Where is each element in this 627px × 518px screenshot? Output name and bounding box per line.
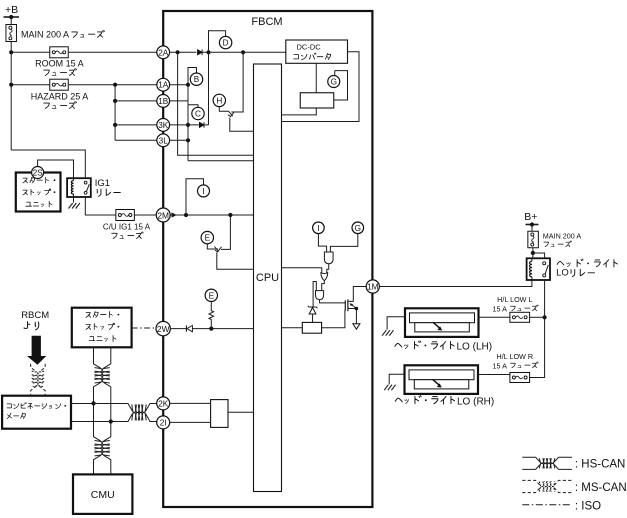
svg-text:: HS-CAN: : HS-CAN [575,458,625,470]
svg-text:ROOM 15 A: ROOM 15 A [35,59,84,69]
svg-text:I: I [202,187,204,196]
svg-text:E: E [205,234,211,243]
svg-text:LO: LO [556,267,569,278]
svg-text:G: G [355,224,361,233]
svg-text:MAIN 200 A: MAIN 200 A [21,30,69,40]
svg-text:1B: 1B [158,97,169,106]
svg-text:CMU: CMU [91,489,115,501]
svg-text:D: D [223,39,229,48]
svg-text:LO (LH): LO (LH) [457,342,493,353]
svg-text:2I: 2I [160,418,167,427]
svg-text:2K: 2K [158,399,169,408]
svg-text:MAIN 200 A: MAIN 200 A [543,231,582,240]
svg-text:15 A: 15 A [493,305,508,314]
svg-text:IG1: IG1 [95,178,110,189]
svg-text:RBCM: RBCM [21,310,49,321]
svg-text:2M: 2M [157,211,169,221]
svg-text:LO (RH): LO (RH) [457,397,494,408]
svg-text:1M: 1M [367,283,379,292]
svg-text:CPU: CPU [256,272,279,284]
svg-text:E: E [209,291,215,300]
svg-text:C: C [195,110,201,119]
svg-text:2W: 2W [157,324,170,334]
svg-text:1A: 1A [158,81,169,90]
svg-text:C/U IG1 15 A: C/U IG1 15 A [103,223,151,232]
svg-text:15 A: 15 A [493,362,508,371]
svg-text:H/L LOW R: H/L LOW R [497,352,533,361]
svg-text:H: H [216,96,222,105]
svg-text:DC-DC: DC-DC [297,42,322,51]
svg-text:3L: 3L [159,136,169,145]
svg-text:2S: 2S [33,169,44,178]
svg-text:+B: +B [5,4,18,16]
svg-text:HAZARD 25 A: HAZARD 25 A [31,92,89,102]
svg-text:I: I [317,224,319,233]
svg-text:2A: 2A [158,48,169,57]
svg-text:: ISO: : ISO [575,500,601,512]
svg-text:: MS-CAN: : MS-CAN [575,482,627,494]
svg-text:G: G [331,78,337,87]
svg-text:H/L LOW L: H/L LOW L [497,295,532,304]
svg-text:3K: 3K [158,121,169,130]
svg-text:B: B [194,75,200,84]
svg-text:FBCM: FBCM [251,16,282,28]
svg-text:B+: B+ [524,211,537,223]
